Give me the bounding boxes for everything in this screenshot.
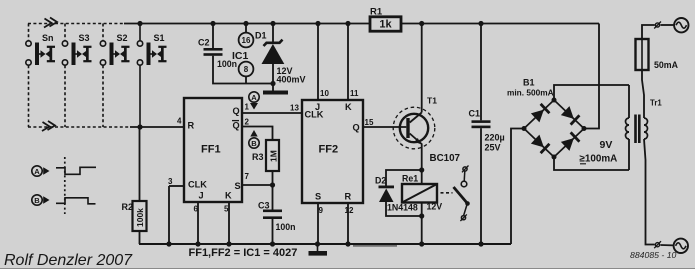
svg-text:R3: R3: [252, 152, 264, 162]
svg-text:4: 4: [177, 117, 182, 126]
svg-text:Re1: Re1: [402, 174, 418, 184]
svg-text:D1: D1: [255, 31, 267, 41]
svg-text:BC107: BC107: [430, 153, 461, 164]
svg-text:CLK: CLK: [188, 180, 207, 190]
svg-text:50mA: 50mA: [654, 60, 679, 70]
svg-text:Q: Q: [233, 121, 240, 131]
svg-text:10: 10: [320, 89, 329, 98]
svg-text:25V: 25V: [485, 143, 501, 153]
svg-text:15: 15: [365, 118, 374, 127]
svg-text:R1: R1: [370, 7, 383, 18]
svg-text:min. 500mA: min. 500mA: [507, 88, 554, 98]
svg-text:1M: 1M: [268, 150, 278, 162]
svg-text:A: A: [34, 167, 40, 176]
svg-text:3: 3: [168, 177, 173, 186]
svg-text:Q: Q: [233, 106, 240, 116]
svg-text:Sn: Sn: [42, 33, 54, 43]
svg-text:100n: 100n: [276, 222, 296, 232]
svg-text:7: 7: [245, 172, 250, 181]
svg-text:S2: S2: [117, 33, 128, 43]
svg-text:FF1,FF2 = IC1 = 4027: FF1,FF2 = IC1 = 4027: [189, 247, 298, 259]
svg-text:CLK: CLK: [305, 110, 324, 120]
svg-text:S: S: [315, 192, 321, 202]
svg-text:S1: S1: [154, 33, 165, 43]
svg-text:C2: C2: [198, 38, 210, 48]
svg-text:400mV: 400mV: [277, 75, 306, 85]
svg-text:B: B: [251, 139, 257, 148]
svg-text:9: 9: [319, 206, 324, 215]
svg-text:≥100mA: ≥100mA: [580, 154, 618, 165]
svg-text:C3: C3: [258, 201, 270, 211]
svg-text:Q: Q: [353, 123, 360, 133]
svg-text:12V: 12V: [427, 202, 443, 212]
svg-text:R: R: [188, 121, 195, 131]
svg-text:IC1: IC1: [232, 50, 249, 62]
svg-text:8: 8: [244, 65, 249, 74]
svg-text:16: 16: [242, 36, 251, 45]
svg-text:T1: T1: [427, 96, 437, 106]
svg-text:13: 13: [290, 104, 299, 113]
svg-text:1: 1: [245, 103, 250, 112]
svg-text:C1: C1: [469, 109, 481, 119]
svg-text:FF2: FF2: [319, 144, 339, 156]
svg-text:D2: D2: [375, 176, 386, 186]
svg-text:S: S: [235, 181, 241, 191]
svg-text:1N4148: 1N4148: [387, 203, 418, 213]
svg-text:K: K: [345, 102, 352, 112]
svg-text:B1: B1: [523, 78, 535, 88]
svg-text:Tr1: Tr1: [650, 99, 662, 108]
svg-text:9V: 9V: [600, 139, 613, 151]
svg-text:J: J: [199, 191, 204, 201]
svg-text:S3: S3: [79, 33, 90, 43]
svg-text:100k: 100k: [135, 208, 145, 227]
svg-text:220µ: 220µ: [485, 133, 505, 143]
svg-text:K: K: [225, 191, 232, 201]
svg-text:B: B: [34, 196, 40, 205]
svg-text:884085 - 10: 884085 - 10: [630, 250, 677, 260]
svg-text:12: 12: [345, 206, 354, 215]
svg-text:2: 2: [245, 118, 250, 127]
svg-text:R2: R2: [122, 202, 134, 212]
svg-text:11: 11: [350, 89, 359, 98]
svg-text:R: R: [345, 192, 352, 202]
svg-text:A: A: [251, 93, 257, 102]
svg-text:1k: 1k: [379, 19, 392, 31]
svg-text:FF1: FF1: [201, 144, 221, 156]
svg-text:Rolf Denzler 2007: Rolf Denzler 2007: [4, 252, 133, 269]
